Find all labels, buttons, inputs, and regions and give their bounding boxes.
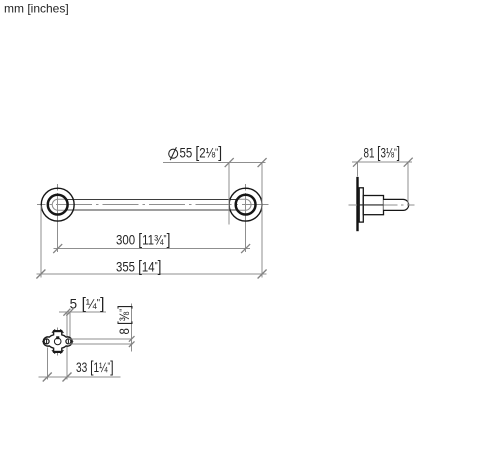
right flange inner ring <box>236 195 256 215</box>
svg-text:355 [14"]: 355 [14"] <box>116 258 161 275</box>
dimension 300: dimension line <box>54 248 251 250</box>
bar top edge <box>67 198 237 200</box>
svg-text:300 [11¾"]: 300 [11¾"] <box>116 231 170 248</box>
right flange vertical centerline <box>245 184 247 252</box>
svg-text:[¼"]: [¼"] <box>82 295 105 312</box>
bracket top tab thick edge <box>53 330 62 332</box>
wall line <box>356 177 358 231</box>
tab corner serrations <box>52 329 64 353</box>
bar bottom edge <box>67 209 237 211</box>
extension line A (shared 5/33) <box>66 312 68 379</box>
dimension O55: extension and dimension lines <box>163 163 265 278</box>
bracket horizontal centerline segments <box>42 328 74 356</box>
svg-text:mm [inches]: mm [inches] <box>4 1 69 15</box>
dimension 5: dimension line <box>59 311 106 313</box>
dimension 8: tangent extension lines from slot <box>68 338 131 340</box>
right screw slot ring <box>66 339 71 344</box>
bar dash-dot centerline <box>37 204 268 206</box>
bar left end cap <box>52 199 66 210</box>
bracket outline <box>43 331 72 352</box>
dimension 33: tick marks <box>43 373 72 382</box>
dimension O55: tick marks <box>225 158 267 167</box>
bracket bottom tab thick edge <box>53 351 62 353</box>
svg-text:81 [3⅛"]: 81 [3⅛"] <box>364 145 401 162</box>
flange body profile <box>363 196 383 215</box>
left flange inner ring <box>48 195 68 215</box>
extension line B <box>69 312 71 337</box>
right flange outer circle <box>229 188 262 221</box>
left flange outer circle <box>41 188 74 221</box>
dimension 8: dimension line (vertical) <box>131 304 133 352</box>
dimension 33: dimension line <box>39 376 121 378</box>
svg-text:5: 5 <box>70 296 77 311</box>
dimension 355: extension and dimension lines <box>37 206 267 278</box>
dimension 81: extension and dimension lines <box>352 162 412 205</box>
dimension 81: tick marks <box>353 158 413 167</box>
dimension 8: tick marks <box>129 336 135 347</box>
bracket vertical centerline <box>57 328 59 356</box>
centerline gray dash right <box>384 204 415 206</box>
left screw slot ring <box>44 339 49 344</box>
dimension 5: tick marks <box>63 309 73 316</box>
bar stub with round cap <box>384 199 409 210</box>
svg-text:8 [⅜"]: 8 [⅜"] <box>116 305 133 335</box>
centerline black segment through body <box>358 204 384 206</box>
set screw square <box>56 336 59 339</box>
rosette plate profile <box>359 188 363 222</box>
left flange vertical centerline <box>57 184 59 252</box>
right slot bar <box>67 339 69 345</box>
svg-text:33 [1¼"]: 33 [1¼"] <box>76 359 114 376</box>
center hole <box>54 338 61 345</box>
dimension 300: tick marks <box>53 244 250 253</box>
left slot bar <box>46 339 48 345</box>
centerline gray left stub <box>349 204 358 206</box>
svg-text:55 [2⅛"]: 55 [2⅛"] <box>180 145 223 162</box>
dimension 355: tick marks <box>36 270 266 279</box>
extension line C <box>46 348 48 380</box>
bar right end cap <box>237 199 251 210</box>
diameter symbol <box>169 147 178 160</box>
